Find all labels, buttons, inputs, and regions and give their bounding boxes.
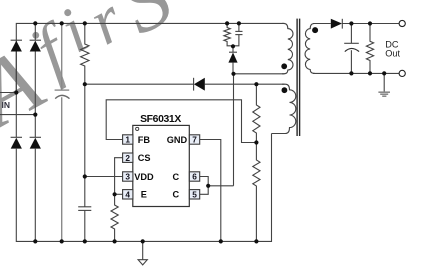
wire FB pin1 loop	[106, 100, 256, 143]
transformer T1 core	[297, 19, 300, 136]
junction bottom rail / sense resistor	[113, 239, 117, 243]
pin 6	[189, 172, 199, 181]
svg-text:3: 3	[125, 172, 130, 182]
pin 4	[123, 190, 133, 199]
wire AC input upper	[0, 92, 16, 94]
junction aux wire / divider top	[254, 82, 258, 86]
junction VDD column / pin3 wire	[83, 174, 87, 178]
resistor R2 sense	[111, 194, 118, 241]
junction top rail / snubber resistor	[225, 21, 229, 25]
diode D3 bridge bottom-left	[11, 136, 22, 138]
junction bottom rail / bulk cap	[60, 239, 64, 243]
junction top rail / bridge right leg	[33, 21, 37, 25]
svg-text:C: C	[173, 190, 180, 200]
diode D7 output rectifier	[331, 19, 342, 29]
resistor R1 startup	[81, 23, 89, 84]
junction VDD column / aux wire	[83, 82, 87, 86]
wire GND pin7	[200, 140, 221, 242]
resistor R5 divider lower	[253, 143, 260, 242]
transformer primary winding	[282, 23, 293, 73]
svg-text:FB: FB	[138, 135, 151, 145]
watermark text	[0, 0, 187, 148]
polarity dot secondary	[312, 27, 318, 33]
wire CS pin2 to E pin4	[115, 158, 123, 195]
diode D4 bridge bottom-right	[30, 136, 41, 138]
junction bottom rail / divider	[254, 239, 258, 243]
junction output bottom / earth ground	[382, 71, 386, 75]
resistor R3 snubber	[224, 23, 233, 45]
junction drain / primary return	[231, 72, 235, 76]
wire pins 5-6 tie	[200, 177, 208, 195]
pin 2	[123, 153, 133, 162]
wire left bridge leg mid	[15, 52, 17, 138]
junction bottom rail / ground	[141, 239, 145, 243]
ground secondary earth	[383, 73, 385, 91]
svg-text:Out: Out	[385, 48, 400, 58]
pin 7	[189, 135, 199, 144]
capacitor C2 VDD bypass	[78, 206, 91, 208]
ground primary	[142, 241, 144, 259]
wire output bottom	[313, 72, 399, 74]
junction output bottom / capacitor	[349, 71, 353, 75]
junction top rail / snubber capacitor	[237, 21, 241, 25]
svg-text:IN: IN	[2, 100, 11, 110]
svg-text:4: 4	[125, 190, 130, 200]
pin 5	[189, 190, 199, 199]
svg-text:6: 6	[192, 172, 197, 182]
junction divider midpoint / FB	[254, 140, 258, 144]
transformer secondary winding	[305, 24, 315, 74]
junction top rail / bulk cap	[60, 21, 64, 25]
transformer aux winding	[272, 84, 296, 133]
wire top rail	[16, 23, 284, 92]
polarity dot aux winding	[282, 87, 288, 93]
junction top rail / startup resistor	[83, 21, 87, 25]
diode D2 bridge top-right	[30, 39, 41, 41]
svg-text:7: 7	[192, 135, 197, 145]
svg-text:E: E	[141, 190, 147, 200]
wire aux winding to VDD	[85, 83, 194, 85]
polarity dot primary	[281, 63, 287, 69]
pin 1	[123, 135, 133, 144]
resistor R4 divider upper	[253, 84, 260, 142]
svg-text:SF6031X: SF6031X	[140, 114, 181, 125]
capacitor C1 bulk electrolytic	[55, 23, 70, 241]
terminal DC out -	[399, 70, 405, 76]
svg-text:1: 1	[125, 135, 130, 145]
junction AC input lower	[33, 113, 37, 117]
junction AC input upper	[14, 90, 18, 94]
wire VDD pin3	[85, 176, 123, 178]
wire right bridge leg	[34, 23, 36, 40]
svg-text:C: C	[173, 172, 180, 182]
capacitor C4 output	[350, 24, 352, 44]
wire AC input lower	[0, 114, 35, 116]
junction bottom rail / GND wire	[219, 239, 223, 243]
junction output top / load resistor	[368, 21, 372, 25]
diode D6 clamp	[229, 51, 237, 53]
resistor R6 load	[366, 24, 373, 74]
svg-text:2: 2	[125, 153, 130, 163]
pin 3	[123, 172, 133, 181]
svg-text:GND: GND	[167, 135, 188, 145]
junction output top / capacitor	[349, 21, 353, 25]
junction snubber RC / clamp diode	[231, 44, 235, 48]
junction output bottom / load resistor	[368, 71, 372, 75]
svg-text:CS: CS	[138, 153, 151, 163]
wire output top	[342, 23, 399, 25]
wire drain	[208, 185, 233, 187]
diode D5 VDD rectifier	[193, 78, 195, 91]
diode D1 bridge top-left	[11, 39, 22, 41]
junction bottom rail / VDD cap	[83, 239, 87, 243]
capacitor C3 snubber	[238, 23, 240, 31]
junction CS-E tie	[113, 192, 117, 196]
wire VDD column	[84, 84, 86, 206]
wire bottom rail	[16, 134, 271, 242]
svg-text:5: 5	[192, 190, 197, 200]
junction bottom rail / bridge right leg	[33, 239, 37, 243]
wire primary return	[234, 73, 285, 75]
wire clamp	[232, 46, 234, 52]
svg-text:VDD: VDD	[134, 172, 154, 182]
wire sec top to diode	[313, 23, 331, 25]
terminal DC out +	[399, 20, 405, 26]
junction pins 5-6 / drain wire	[206, 184, 210, 188]
op-amp U1 SF6031X body	[133, 125, 190, 206]
